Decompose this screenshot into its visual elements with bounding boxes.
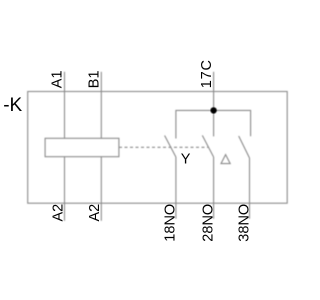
wire: terminal lead B1 — [100, 72, 102, 139]
svg-text:38NO: 38NO — [236, 204, 252, 242]
triangle symbol (semiconductor output) — [221, 155, 230, 164]
contact blade 3 (38NO) — [239, 136, 250, 158]
wire: terminal lead 38NO — [249, 158, 251, 219]
svg-text:28NO: 28NO — [200, 204, 216, 242]
wire: terminal lead A1 — [64, 72, 66, 139]
wire: terminal lead A2 (right) — [100, 157, 102, 221]
wire: contact 2 top branch — [213, 110, 215, 136]
contact blade 2 (28NO) — [202, 135, 213, 157]
svg-text:18NO: 18NO — [163, 204, 179, 242]
junction dot at node 17C — [210, 107, 216, 113]
wire: terminal lead 18NO — [175, 157, 177, 219]
svg-text:-K: -K — [3, 95, 22, 116]
svg-text:Y: Y — [181, 152, 191, 168]
wire: terminal lead 17C — [213, 72, 215, 111]
svg-text:B1: B1 — [87, 70, 103, 88]
wire: terminal lead A2 (left) — [64, 157, 66, 221]
svg-text:A1: A1 — [50, 70, 66, 88]
relay enclosure box — [28, 92, 288, 204]
mechanical linkage (dashed) — [119, 146, 208, 148]
svg-text:A2: A2 — [87, 204, 103, 222]
wire: bus from node 17C to contacts 1 and 3 — [176, 110, 251, 138]
svg-text:17C: 17C — [199, 59, 215, 88]
wire: terminal lead 28NO — [213, 157, 215, 219]
contact blade 1 (18NO) — [165, 136, 176, 158]
svg-text:A2: A2 — [50, 204, 66, 222]
coil K (rectangle) — [45, 138, 119, 156]
